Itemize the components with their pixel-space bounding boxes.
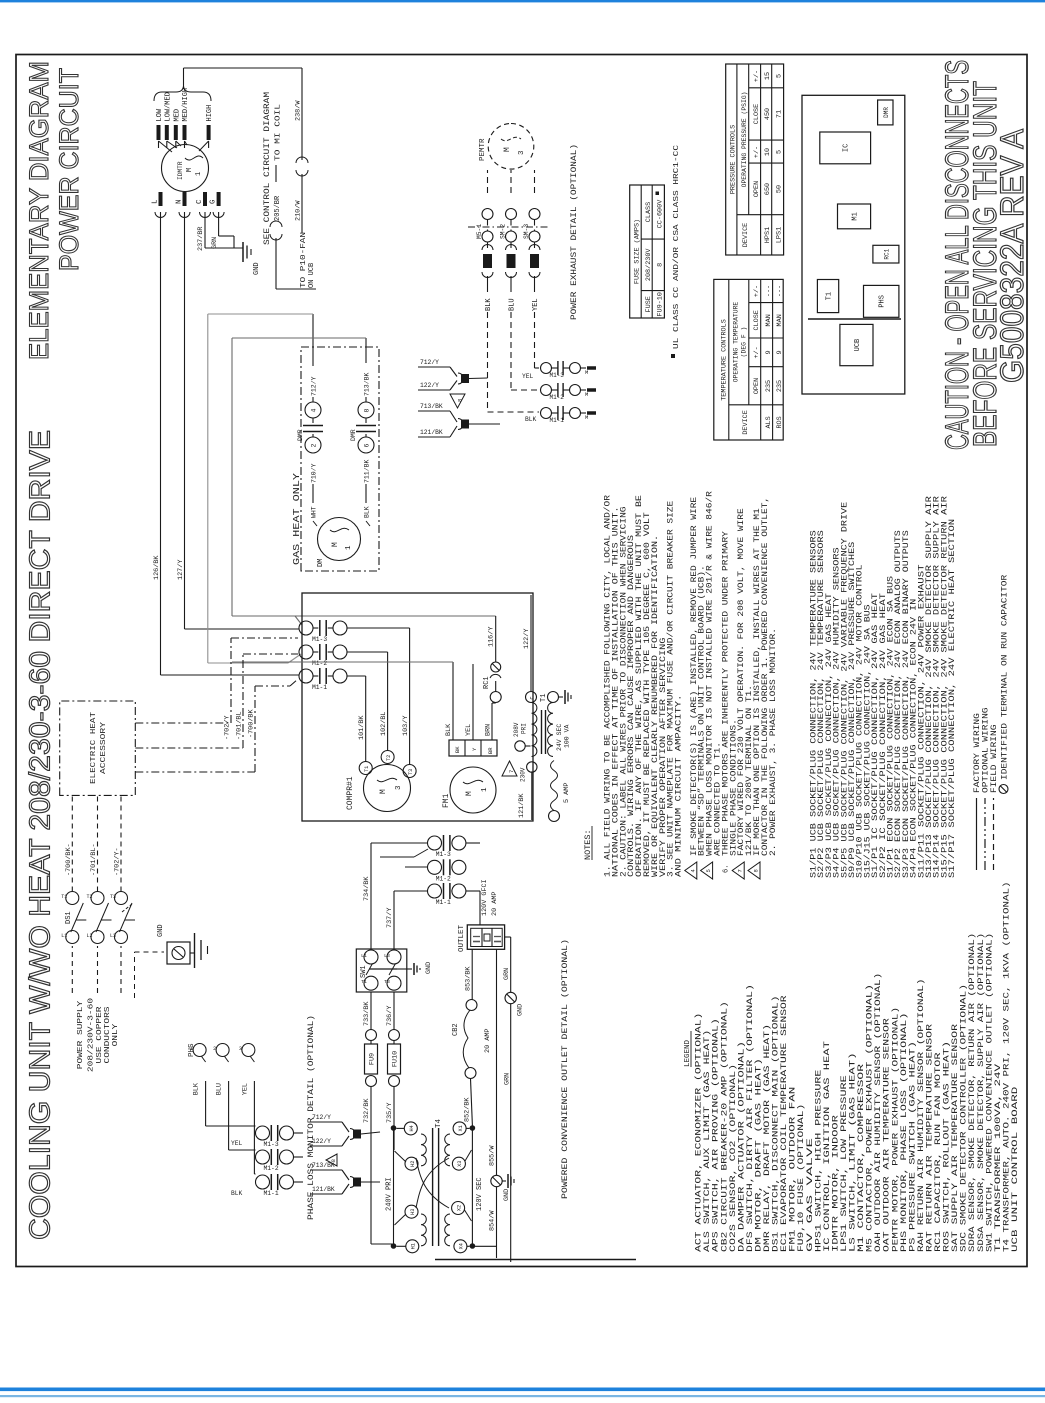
svg-text:FU9-10: FU9-10 xyxy=(656,292,664,316)
svg-text:15: 15 xyxy=(764,72,772,80)
svg-text:208/230V: 208/230V xyxy=(645,248,653,282)
svg-text:120V SEC: 120V SEC xyxy=(476,1177,484,1211)
svg-text:MAN: MAN xyxy=(776,314,784,326)
svg-text:CB2: CB2 xyxy=(452,1023,460,1036)
svg-text:H1: H1 xyxy=(411,1243,417,1249)
svg-text:GND: GND xyxy=(253,262,261,275)
svg-text:712/Y: 712/Y xyxy=(312,1114,331,1121)
svg-text:+/-: +/- xyxy=(753,70,761,82)
svg-text:ELECTRIC HEAT: ELECTRIC HEAT xyxy=(90,711,98,784)
svg-text:8: 8 xyxy=(656,263,664,267)
svg-text:-702/Y: -702/Y xyxy=(224,716,232,740)
svg-text:HPS1: HPS1 xyxy=(764,227,772,243)
svg-text:8: 8 xyxy=(457,399,464,402)
svg-text:2. POWER EXHAUST, 3. PHASE LOS: 2. POWER EXHAUST, 3. PHASE LOSS MONITOR. xyxy=(769,628,778,856)
svg-text:PEMTR: PEMTR xyxy=(479,138,487,161)
svg-text:WHT: WHT xyxy=(311,506,318,518)
svg-text:CLOSE: CLOSE xyxy=(753,104,761,124)
svg-text:FU10: FU10 xyxy=(392,1051,400,1067)
svg-text:7: 7 xyxy=(737,869,744,872)
svg-text:8: 8 xyxy=(753,869,760,872)
svg-text:DMR: DMR xyxy=(883,107,890,118)
svg-text:OPERATING TEMPERATURE: OPERATING TEMPERATURE xyxy=(733,302,740,383)
svg-text:713/BK: 713/BK xyxy=(420,403,443,410)
svg-text:235: 235 xyxy=(776,380,784,392)
svg-text:L: L xyxy=(152,199,160,204)
svg-text:PRI: PRI xyxy=(521,723,528,734)
svg-text:CONDUCTORS: CONDUCTORS xyxy=(104,1006,112,1064)
svg-text:DM: DM xyxy=(317,559,325,567)
svg-text:X2: X2 xyxy=(456,1205,462,1211)
svg-text:GND: GND xyxy=(157,924,165,937)
svg-text:5: 5 xyxy=(775,150,783,154)
svg-text:TEMPERATURE CONTROLS: TEMPERATURE CONTROLS xyxy=(720,319,728,401)
svg-text:T1: T1 xyxy=(826,292,834,300)
svg-text:737/Y: 737/Y xyxy=(386,908,394,928)
svg-text:M1: M1 xyxy=(852,212,860,220)
svg-text:G5008322A REV A: G5008322A REV A xyxy=(994,128,1030,383)
svg-text:127/Y: 127/Y xyxy=(177,560,185,580)
svg-text:M1-3: M1-3 xyxy=(550,372,565,379)
svg-text:DS1: DS1 xyxy=(65,911,73,924)
svg-text:ELEMENTARY DIAGRAM: ELEMENTARY DIAGRAM xyxy=(24,61,54,360)
svg-text:ROS: ROS xyxy=(776,416,784,428)
svg-text:-701/BL: -701/BL xyxy=(236,711,244,740)
svg-text:853/BK: 853/BK xyxy=(465,966,473,991)
svg-text:YEL: YEL xyxy=(241,1083,249,1095)
svg-text:GAS HEAT ONLY: GAS HEAT ONLY xyxy=(292,472,302,565)
svg-text:230V: 230V xyxy=(520,767,527,782)
svg-text:POWER CIRCUIT: POWER CIRCUIT xyxy=(54,68,84,271)
svg-text:AND MINIMUM CIRCUIT AMPACITY.: AND MINIMUM CIRCUIT AMPACITY. xyxy=(675,695,684,877)
svg-text:238/W: 238/W xyxy=(295,100,303,121)
svg-text:IDMTR: IDMTR xyxy=(177,161,184,180)
svg-text:9: 9 xyxy=(776,350,784,354)
svg-text:S17/P17 SOCKET/PLUG CONNE: S17/P17 SOCKET/PLUG CONNECTION, 24V ELEC… xyxy=(948,519,957,878)
svg-text:-700/BK-: -700/BK- xyxy=(65,843,73,876)
svg-text:5 AMP: 5 AMP xyxy=(563,783,571,803)
svg-text:COOLING UNIT W/WO HEAT 208/230: COOLING UNIT W/WO HEAT 208/230-3-60 DIRE… xyxy=(25,430,57,1240)
svg-text:BRN: BRN xyxy=(485,724,493,736)
svg-text:121/BK: 121/BK xyxy=(518,793,526,818)
svg-text:126/BK: 126/BK xyxy=(153,555,161,580)
svg-text:PRESSURE CONTROLS: PRESSURE CONTROLS xyxy=(729,125,737,194)
svg-text:-700/BK: -700/BK xyxy=(248,709,256,738)
svg-text:TO P10-FAN: TO P10-FAN xyxy=(300,232,308,288)
svg-text:M: M xyxy=(503,147,512,152)
svg-text:20 AMP: 20 AMP xyxy=(491,892,499,916)
svg-text:100 VA: 100 VA xyxy=(564,724,571,748)
svg-text:BLU: BLU xyxy=(509,298,517,311)
svg-text:N: N xyxy=(176,199,184,204)
svg-text:CLASS: CLASS xyxy=(645,202,653,222)
svg-text:DEVICE: DEVICE xyxy=(742,410,750,434)
svg-text:DEVICE: DEVICE xyxy=(742,223,750,247)
svg-text:M: M xyxy=(379,789,388,794)
svg-text:NOTES:: NOTES: xyxy=(583,829,593,860)
svg-text:M1-3: M1-3 xyxy=(436,851,451,858)
svg-text:T3: T3 xyxy=(408,769,414,775)
svg-text:4: 4 xyxy=(311,409,318,413)
svg-text:RC1: RC1 xyxy=(483,676,491,689)
svg-text:9: 9 xyxy=(765,350,773,354)
svg-text:7: 7 xyxy=(508,770,515,773)
svg-text:120V GFCI: 120V GFCI xyxy=(481,879,489,916)
svg-text:3: 3 xyxy=(239,1046,242,1052)
svg-text:L3: L3 xyxy=(384,953,390,959)
svg-text:T1: T1 xyxy=(61,894,67,900)
svg-text:MED: MED xyxy=(173,109,181,122)
svg-text:1: 1 xyxy=(190,1046,193,1052)
svg-text:M1-2: M1-2 xyxy=(550,394,565,401)
svg-text:SM-2: SM-2 xyxy=(500,224,507,239)
svg-text:10: 10 xyxy=(764,148,772,156)
svg-text:USE COPPER: USE COPPER xyxy=(96,1006,104,1064)
svg-text:T1: T1 xyxy=(361,979,367,985)
svg-text:M: M xyxy=(585,391,588,398)
svg-text:DMR: DMR xyxy=(297,429,304,441)
svg-text:GRN: GRN xyxy=(504,1073,512,1085)
svg-text:YEL: YEL xyxy=(231,1140,243,1147)
svg-text:102/BL: 102/BL xyxy=(380,712,388,736)
svg-text:1: 1 xyxy=(345,545,353,550)
svg-text:103/Y: 103/Y xyxy=(402,716,410,736)
svg-text:T4: T4 xyxy=(435,1118,443,1128)
svg-text:X1: X1 xyxy=(458,1125,464,1131)
svg-text:UCB: UCB xyxy=(854,339,862,352)
svg-text:M5-1: M5-1 xyxy=(476,224,483,239)
svg-text:+/-: +/- xyxy=(753,285,761,297)
svg-text:BLK: BLK xyxy=(231,1190,243,1197)
svg-text:8: 8 xyxy=(364,409,371,413)
svg-text:(DEG F ): (DEG F ) xyxy=(741,327,748,358)
svg-text:L2: L2 xyxy=(86,933,92,939)
svg-text:BLK: BLK xyxy=(364,506,371,518)
svg-text:M: M xyxy=(585,414,588,421)
svg-text:PHS: PHS xyxy=(879,295,887,308)
svg-text:OPEN: OPEN xyxy=(753,378,761,394)
svg-text:L3: L3 xyxy=(110,933,116,939)
svg-text:20 AMP: 20 AMP xyxy=(484,1029,492,1053)
svg-text:OUTLET: OUTLET xyxy=(458,924,466,952)
svg-text:OPERATING PRESSURE (PSIG): OPERATING PRESSURE (PSIG) xyxy=(741,91,748,187)
svg-text:6: 6 xyxy=(364,444,371,448)
svg-text:+/-: +/- xyxy=(753,346,761,358)
svg-text:M: M xyxy=(186,168,194,172)
svg-text:732/BK: 732/BK xyxy=(363,1098,371,1123)
svg-text:M1-2: M1-2 xyxy=(264,1165,279,1172)
svg-text:-702/Y-: -702/Y- xyxy=(114,847,122,876)
svg-text:FIELD WIRING: FIELD WIRING xyxy=(990,724,999,793)
svg-text:122/Y: 122/Y xyxy=(420,382,439,389)
svg-text:-701/BL-: -701/BL- xyxy=(90,843,98,876)
svg-text:M1-1: M1-1 xyxy=(436,899,451,906)
svg-text:733/BK: 733/BK xyxy=(363,1001,371,1026)
svg-text:450: 450 xyxy=(764,108,772,120)
svg-text:MED/HIGH: MED/HIGH xyxy=(182,88,190,122)
svg-text:H2: H2 xyxy=(410,1161,416,1167)
svg-text:116/Y: 116/Y xyxy=(488,627,496,647)
svg-text:71: 71 xyxy=(775,110,783,118)
svg-text:YEL: YEL xyxy=(465,724,473,736)
svg-text:50: 50 xyxy=(775,185,783,193)
svg-text:3: 3 xyxy=(395,785,403,790)
svg-text:2: 2 xyxy=(311,444,318,448)
svg-text:DMR: DMR xyxy=(350,429,357,441)
svg-text:M1-1: M1-1 xyxy=(264,1190,279,1197)
svg-text:FUSE SIZE (AMPS): FUSE SIZE (AMPS) xyxy=(634,219,642,284)
svg-text:710/Y: 710/Y xyxy=(311,463,318,483)
svg-text:735/Y: 735/Y xyxy=(386,1103,394,1123)
svg-text:GRN: GRN xyxy=(211,237,219,249)
svg-text:BLK: BLK xyxy=(485,298,493,311)
svg-text:C: C xyxy=(530,696,536,699)
svg-text:M: M xyxy=(585,369,588,376)
svg-text:T1: T1 xyxy=(364,766,370,772)
svg-text:121/BK: 121/BK xyxy=(312,1186,335,1193)
svg-text:GND: GND xyxy=(517,1004,525,1016)
svg-text:COMPR#1: COMPR#1 xyxy=(346,776,355,810)
svg-text:TO MI COIL: TO MI COIL xyxy=(275,103,283,161)
svg-text:M1-3: M1-3 xyxy=(312,636,327,643)
svg-text:BK: BK xyxy=(454,746,461,753)
svg-text:24V SEC: 24V SEC xyxy=(556,724,563,751)
svg-text:HIGH: HIGH xyxy=(206,105,214,122)
svg-text:UCB UNIT CONTROL BOARD: UCB UNIT CONTROL BOARD xyxy=(1011,1086,1020,1252)
svg-text:C: C xyxy=(196,199,204,204)
svg-text:240V PRI: 240V PRI xyxy=(386,1177,394,1211)
svg-text:H4: H4 xyxy=(409,1125,415,1131)
svg-text:852/BK: 852/BK xyxy=(464,1097,472,1122)
svg-text:734/BK: 734/BK xyxy=(363,876,371,901)
svg-text:BLU: BLU xyxy=(216,1083,224,1095)
svg-text:ON UCB: ON UCB xyxy=(308,263,316,288)
svg-text:855/W: 855/W xyxy=(489,1145,497,1166)
svg-text:6.: 6. xyxy=(722,865,730,873)
svg-text:FU9: FU9 xyxy=(369,1053,377,1065)
svg-text:T3: T3 xyxy=(384,979,390,985)
svg-text:X3: X3 xyxy=(457,1161,463,1167)
svg-text:122/Y: 122/Y xyxy=(523,629,531,649)
svg-text:GND: GND xyxy=(503,1189,511,1201)
svg-text:GRN: GRN xyxy=(503,968,511,980)
svg-text:G: G xyxy=(210,199,218,204)
svg-text:FM1: FM1 xyxy=(442,793,451,808)
svg-text:M1-3: M1-3 xyxy=(264,1141,279,1148)
svg-text:122/Y: 122/Y xyxy=(312,1138,331,1145)
svg-text:BLK: BLK xyxy=(525,416,537,423)
svg-text:POWER EXHAUST DETAIL (OPTIONAL: POWER EXHAUST DETAIL (OPTIONAL) xyxy=(570,144,579,320)
svg-text:3: 3 xyxy=(518,150,526,155)
svg-text:101/BK: 101/BK xyxy=(358,715,366,740)
svg-text:POWER SUPPLY: POWER SUPPLY xyxy=(77,1000,85,1069)
svg-text:BLK: BLK xyxy=(193,1082,201,1095)
svg-text:712/Y: 712/Y xyxy=(420,359,439,366)
svg-text:M1-1: M1-1 xyxy=(550,417,565,424)
svg-text:1: 1 xyxy=(195,172,203,176)
svg-text:237/BR: 237/BR xyxy=(197,227,205,251)
svg-text:YEL: YEL xyxy=(532,298,540,311)
svg-text:8: 8 xyxy=(330,1159,337,1162)
svg-text:711/BK: 711/BK xyxy=(364,459,371,483)
svg-text:205/BR: 205/BR xyxy=(274,195,282,221)
svg-text:MAN: MAN xyxy=(765,314,773,326)
svg-text:CLOSE: CLOSE xyxy=(753,310,761,330)
svg-text:L1: L1 xyxy=(61,933,67,939)
svg-text:UL CLASS CC AND/OR CSA CLASS H: UL CLASS CC AND/OR CSA CLASS HRC1-CC xyxy=(673,144,681,349)
svg-text:T2: T2 xyxy=(86,894,92,900)
svg-text:BLK: BLK xyxy=(445,723,453,736)
svg-text:M: M xyxy=(331,542,340,547)
svg-text:T3: T3 xyxy=(110,894,116,900)
svg-text:712/Y: 712/Y xyxy=(311,376,318,396)
svg-text:LPS1: LPS1 xyxy=(775,227,783,243)
svg-text:5: 5 xyxy=(775,74,783,78)
svg-text:L1: L1 xyxy=(361,953,367,959)
svg-text:+/-: +/- xyxy=(753,146,761,158)
svg-text:H3: H3 xyxy=(410,1209,416,1215)
svg-text:208/230V-3-60: 208/230V-3-60 xyxy=(88,997,96,1072)
svg-text:650: 650 xyxy=(764,183,772,195)
svg-text:SM-3: SM-3 xyxy=(523,224,530,239)
svg-text:210/W: 210/W xyxy=(295,200,303,221)
svg-text:YEL: YEL xyxy=(522,373,534,380)
svg-text:---: --- xyxy=(765,285,773,297)
svg-text:1: 1 xyxy=(481,787,489,792)
svg-text:IDENTIFIED TERMINAL ON RUN CAP: IDENTIFIED TERMINAL ON RUN CAPACITOR xyxy=(1001,575,1010,780)
svg-text:M1-1: M1-1 xyxy=(312,684,327,691)
svg-text:M1-2: M1-2 xyxy=(436,875,451,882)
svg-text:736/Y: 736/Y xyxy=(386,1006,394,1026)
svg-text:SEE CONTROL CIRCUIT DIAGRAM: SEE CONTROL CIRCUIT DIAGRAM xyxy=(263,92,272,245)
svg-text:CC-600V: CC-600V xyxy=(656,199,664,228)
svg-text:LOW: LOW xyxy=(156,108,164,121)
svg-text:208V: 208V xyxy=(513,722,520,737)
svg-text:POWERED CONVENIENCE OUTLET DET: POWERED CONVENIENCE OUTLET DETAIL (OPTIO… xyxy=(561,939,570,1199)
svg-text:IC: IC xyxy=(843,144,851,152)
svg-text:T2: T2 xyxy=(386,755,392,761)
svg-text:SW1: SW1 xyxy=(360,965,368,978)
svg-text:M1-2: M1-2 xyxy=(312,660,327,667)
svg-text:121/BK: 121/BK xyxy=(420,429,443,436)
svg-text:M: M xyxy=(465,791,474,796)
svg-text:ONLY: ONLY xyxy=(112,1023,120,1046)
svg-text:X4: X4 xyxy=(459,1243,465,1249)
svg-text:854/W: 854/W xyxy=(489,1210,497,1231)
svg-text:RC1: RC1 xyxy=(883,248,890,259)
svg-text:LOW/MED: LOW/MED xyxy=(164,92,172,121)
svg-text:2: 2 xyxy=(213,1046,216,1052)
svg-text:OPEN: OPEN xyxy=(753,181,761,197)
svg-text:GND: GND xyxy=(425,962,433,974)
svg-text:ACCESSORY: ACCESSORY xyxy=(100,721,108,774)
svg-text:5: 5 xyxy=(705,869,712,872)
svg-text:BR: BR xyxy=(487,747,494,754)
svg-text:235: 235 xyxy=(765,380,773,392)
svg-text:FUSE: FUSE xyxy=(645,296,653,312)
svg-text:T1: T1 xyxy=(540,694,548,702)
svg-text:713/BK: 713/BK xyxy=(364,372,371,396)
svg-text:ALS: ALS xyxy=(765,416,773,428)
svg-text:---: --- xyxy=(776,285,784,297)
